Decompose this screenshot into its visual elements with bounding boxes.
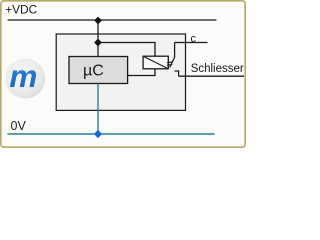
node junction at coil branch [94,39,102,47]
node junction on +VDC rail [94,17,102,25]
svg-text:+VDC: +VDC [5,2,37,16]
relay contact blade (Schliesser) [170,57,175,67]
relay coil K1 [143,56,168,69]
svg-text:0V: 0V [11,119,27,133]
microcontroller box U1 [69,57,128,84]
wire 0V rail [7,133,214,135]
page background with tan frame [1,1,245,147]
wire c line [175,42,208,44]
wire from +VDC rail down to uC [97,20,99,57]
logo sphere m [5,58,45,99]
svg-text:Schliesser: Schliesser [191,63,244,75]
wire uC output to coil bottom [128,69,155,76]
node junction on 0V rail [94,130,102,138]
svg-text:µC: µC [83,63,104,80]
wire contact common from c line [174,43,176,58]
relay actuator link [167,62,172,65]
wire +VDC rail [8,19,217,21]
module box [56,34,185,110]
wire Schliesser output [179,75,244,77]
wire uC to 0V rail [97,84,99,135]
svg-text:m: m [9,58,37,94]
svg-text:c: c [191,33,197,45]
wire branch to relay coil [98,43,155,57]
relay contact fixed terminal [175,71,179,76]
